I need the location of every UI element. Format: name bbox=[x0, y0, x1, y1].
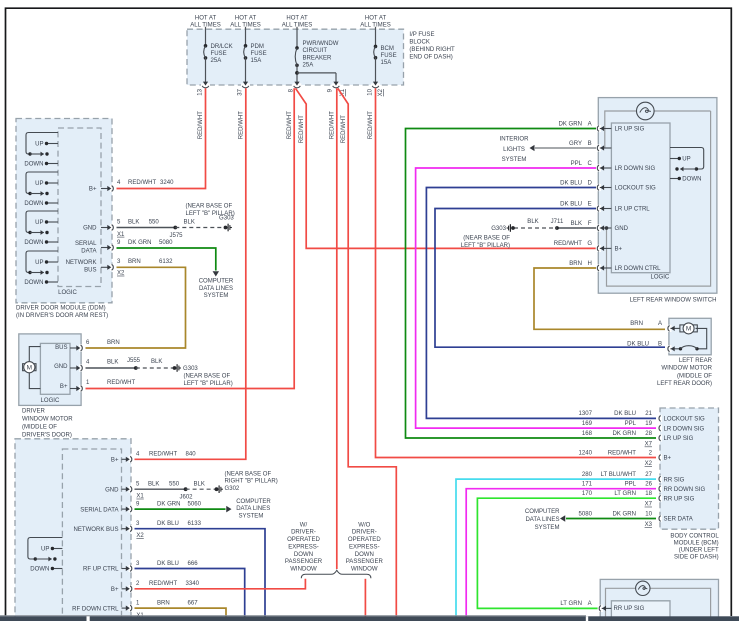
motor pin labels bbox=[54, 345, 68, 390]
DDM pin 5 GND bbox=[83, 224, 116, 232]
svg-text:RED/WHT: RED/WHT bbox=[608, 450, 637, 456]
wire BRN pin H to LR motor A bbox=[534, 268, 665, 329]
svg-text:4: 4 bbox=[86, 360, 90, 366]
svg-text:15A: 15A bbox=[381, 60, 393, 66]
svg-text:X2: X2 bbox=[117, 271, 125, 277]
svg-text:COMPUTER: COMPUTER bbox=[525, 509, 560, 515]
svg-text:DK GRN: DK GRN bbox=[612, 511, 636, 517]
svg-text:1: 1 bbox=[86, 380, 90, 386]
svg-text:DRIVER DOOR MODULE (DDM): DRIVER DOOR MODULE (DDM) bbox=[16, 306, 106, 312]
wire RED/WHT pin9 branch down W/O option bbox=[338, 88, 397, 616]
svg-text:FUSE: FUSE bbox=[251, 51, 267, 57]
svg-text:RED/WHT: RED/WHT bbox=[239, 111, 245, 140]
svg-text:280: 280 bbox=[582, 472, 593, 478]
svg-text:5: 5 bbox=[136, 482, 140, 488]
svg-text:G: G bbox=[587, 241, 592, 247]
svg-text:DK BLU: DK BLU bbox=[627, 342, 649, 348]
wire RED/WHT pin10 to BCM B+ 1240 bbox=[368, 88, 656, 457]
svg-text:19: 19 bbox=[645, 421, 652, 427]
svg-text:WINDOW MOTOR: WINDOW MOTOR bbox=[661, 366, 712, 372]
wire RED/WHT pin13 to DDM B+ bbox=[117, 88, 206, 188]
svg-text:UP: UP bbox=[35, 260, 43, 266]
LR switch logic box bbox=[611, 123, 670, 281]
svg-text:25A: 25A bbox=[303, 63, 315, 69]
svg-text:J575: J575 bbox=[169, 233, 183, 239]
svg-text:BLK: BLK bbox=[128, 220, 139, 226]
svg-text:10: 10 bbox=[645, 511, 652, 517]
wire RED/WHT pin8 to driver window motor B+ bbox=[86, 88, 295, 388]
svg-text:DOWN: DOWN bbox=[30, 567, 49, 573]
svg-text:DOWN: DOWN bbox=[682, 177, 701, 183]
svg-text:SERIAL: SERIAL bbox=[75, 241, 97, 247]
ground G302 bbox=[215, 472, 278, 494]
svg-text:F: F bbox=[588, 221, 592, 227]
wire PPL pin C to BCM 169 bbox=[416, 168, 656, 428]
svg-text:5: 5 bbox=[117, 220, 121, 226]
svg-text:RR UP SIG: RR UP SIG bbox=[614, 606, 645, 612]
svg-text:LOGIC: LOGIC bbox=[58, 290, 77, 296]
svg-text:DATA LINES: DATA LINES bbox=[199, 286, 233, 292]
BCM pin 21 LOCKOUT SIG bbox=[579, 411, 705, 422]
PDM pin 4 B+ bbox=[111, 452, 196, 464]
svg-text:PDM: PDM bbox=[251, 44, 264, 50]
BCM caption bbox=[670, 533, 719, 560]
label HOT AT ALL TIMES 3 bbox=[282, 16, 313, 29]
svg-text:26: 26 bbox=[645, 482, 652, 488]
svg-text:RED/WHT: RED/WHT bbox=[368, 111, 374, 140]
svg-text:DRIVER: DRIVER bbox=[22, 409, 45, 415]
left rear window motor box bbox=[669, 318, 711, 355]
label W/ driver-operated express-down passenger window bbox=[285, 522, 323, 572]
svg-text:RED/WHT: RED/WHT bbox=[341, 115, 347, 144]
svg-text:27: 27 bbox=[645, 472, 652, 478]
svg-text:EXPRESS-: EXPRESS- bbox=[288, 544, 319, 550]
PDM pin 3 RF UP CTRL wire DK BLU 666 bbox=[83, 561, 245, 616]
svg-text:3340: 3340 bbox=[186, 581, 200, 587]
svg-text:M: M bbox=[27, 364, 32, 371]
svg-text:BLK: BLK bbox=[148, 482, 159, 488]
DDM switch group 3 bbox=[24, 211, 58, 246]
svg-text:LEFT "B" PILLAR): LEFT "B" PILLAR) bbox=[184, 381, 233, 387]
svg-text:(NEAR BASE OF: (NEAR BASE OF bbox=[184, 374, 231, 380]
DDM pin 3 NETWORK BUS bbox=[66, 260, 116, 274]
svg-text:X1: X1 bbox=[117, 232, 125, 238]
wire BLK 550 to G303 bbox=[117, 220, 224, 240]
motor symbol M bbox=[23, 347, 41, 389]
svg-text:LR DOWN SIG: LR DOWN SIG bbox=[664, 426, 705, 432]
svg-text:LEFT REAR WINDOW SWITCH: LEFT REAR WINDOW SWITCH bbox=[630, 298, 717, 304]
svg-text:DK GRN: DK GRN bbox=[612, 431, 636, 437]
bottom bar bbox=[0, 615, 739, 621]
svg-text:G302: G302 bbox=[225, 486, 240, 492]
label I/P FUSE BLOCK caption bbox=[409, 32, 455, 61]
svg-text:4: 4 bbox=[117, 180, 121, 186]
junction breaker output bbox=[295, 71, 336, 83]
label computer data lines system (BCM) bbox=[525, 509, 560, 531]
LR switch pin E LR UP CTRL bbox=[560, 201, 650, 212]
LR motor pin B + breaker arc bbox=[627, 342, 699, 353]
ground G303 (LR switch) bbox=[461, 224, 515, 249]
svg-text:550: 550 bbox=[149, 220, 160, 226]
svg-text:X2: X2 bbox=[645, 461, 653, 467]
svg-text:DOWN: DOWN bbox=[24, 162, 43, 168]
LR motor caption bbox=[657, 358, 713, 387]
svg-text:HOT AT: HOT AT bbox=[235, 16, 257, 22]
svg-text:RED/WHT: RED/WHT bbox=[554, 241, 583, 247]
svg-text:DOWN: DOWN bbox=[24, 201, 43, 207]
LR switch caption bbox=[630, 298, 717, 304]
DDM logic box bbox=[58, 128, 101, 296]
ground G303 (DDM) bbox=[186, 204, 235, 232]
svg-text:HOT AT: HOT AT bbox=[195, 16, 217, 22]
svg-text:BRN: BRN bbox=[107, 340, 120, 346]
svg-text:5060: 5060 bbox=[188, 502, 202, 508]
svg-text:25A: 25A bbox=[211, 58, 223, 64]
svg-text:BLK: BLK bbox=[151, 359, 162, 365]
svg-text:LIGHTS: LIGHTS bbox=[503, 147, 525, 153]
right rear window switch box bbox=[600, 579, 718, 621]
svg-text:B: B bbox=[658, 342, 662, 348]
PDM logic box bbox=[62, 449, 121, 621]
svg-text:D: D bbox=[588, 180, 593, 186]
svg-text:INTERIOR: INTERIOR bbox=[500, 136, 530, 142]
svg-text:RR DOWN SIG: RR DOWN SIG bbox=[664, 487, 706, 493]
svg-text:B+: B+ bbox=[60, 384, 68, 390]
PDM pin 2 B+ wire RED/WHT 3340 bbox=[111, 579, 305, 593]
svg-text:GRY: GRY bbox=[569, 141, 582, 147]
passenger door module box bbox=[15, 439, 131, 621]
svg-text:RED/WHT: RED/WHT bbox=[149, 581, 178, 587]
wire RED/WHT W/O leg bbox=[364, 579, 366, 617]
RR switch lamp bbox=[606, 581, 711, 616]
svg-text:RED/WHT: RED/WHT bbox=[128, 180, 157, 186]
label interior lights system bbox=[500, 136, 530, 163]
svg-text:PASSENGER: PASSENGER bbox=[285, 559, 323, 565]
svg-text:SYSTEM: SYSTEM bbox=[239, 513, 264, 519]
svg-text:BLK: BLK bbox=[107, 360, 118, 366]
BCM pin 26 RR DOWN SIG bbox=[582, 482, 706, 493]
svg-text:SERIAL DATA: SERIAL DATA bbox=[80, 507, 119, 513]
svg-text:RR UP SIG: RR UP SIG bbox=[664, 496, 695, 502]
RR switch pin A RR UP SIG bbox=[560, 601, 644, 612]
svg-text:GND: GND bbox=[83, 226, 97, 232]
svg-text:HOT AT: HOT AT bbox=[286, 16, 308, 22]
pin 9 connector X1 bbox=[328, 82, 347, 97]
svg-text:G303: G303 bbox=[491, 226, 506, 232]
svg-text:SYSTEM: SYSTEM bbox=[502, 157, 527, 163]
svg-text:DRIVER-: DRIVER- bbox=[291, 530, 316, 536]
svg-text:171: 171 bbox=[582, 482, 593, 488]
svg-text:9: 9 bbox=[117, 240, 121, 246]
svg-text:LEFT REAR: LEFT REAR bbox=[679, 358, 713, 364]
svg-text:LR UP SIG: LR UP SIG bbox=[664, 436, 694, 442]
svg-text:1307: 1307 bbox=[579, 411, 593, 417]
PDM pin 1 RF DOWN CTRL wire BRN 667 bbox=[72, 601, 226, 619]
svg-text:LR DOWN SIG: LR DOWN SIG bbox=[615, 166, 656, 172]
svg-text:9: 9 bbox=[136, 502, 140, 508]
fuse BCM 15A bbox=[374, 27, 397, 83]
label computer data lines system (DDM) bbox=[199, 279, 234, 299]
svg-text:RF UP CTRL: RF UP CTRL bbox=[83, 567, 119, 573]
DDM switch group 2 bbox=[24, 172, 58, 207]
RR switch logic box bbox=[611, 601, 670, 621]
svg-text:BLK: BLK bbox=[571, 221, 582, 227]
svg-text:LOGIC: LOGIC bbox=[41, 398, 60, 404]
svg-text:END OF DASH): END OF DASH) bbox=[409, 54, 452, 60]
svg-text:LR UP CTRL: LR UP CTRL bbox=[615, 207, 651, 213]
svg-text:A: A bbox=[658, 321, 663, 327]
svg-text:J555: J555 bbox=[127, 358, 141, 364]
svg-text:M: M bbox=[686, 326, 691, 333]
svg-text:GND: GND bbox=[54, 364, 68, 370]
svg-text:MODULE (BCM): MODULE (BCM) bbox=[674, 541, 719, 547]
svg-text:2: 2 bbox=[136, 581, 140, 587]
svg-text:UP: UP bbox=[35, 142, 43, 148]
wire LT BLU/WHT 280 to RR switch bbox=[456, 479, 656, 616]
svg-text:DRIVER-: DRIVER- bbox=[352, 530, 377, 536]
svg-text:PASSENGER: PASSENGER bbox=[346, 559, 384, 565]
LR switch UP/DOWN contacts bbox=[670, 148, 704, 183]
svg-text:BRN: BRN bbox=[569, 261, 582, 267]
BCM pin 2 B+ bbox=[579, 450, 672, 467]
svg-text:B+: B+ bbox=[89, 187, 97, 193]
svg-text:(IN DRIVER'S DOOR ARM REST): (IN DRIVER'S DOOR ARM REST) bbox=[16, 313, 108, 319]
svg-text:LR DOWN CTRL: LR DOWN CTRL bbox=[615, 266, 662, 272]
driver window motor box bbox=[19, 334, 81, 406]
PDM pin 3 NETWORK BUS wire DK BLU 6133 bbox=[73, 521, 265, 616]
label W/O driver-operated express-down passenger window bbox=[346, 522, 384, 572]
svg-text:UP: UP bbox=[35, 181, 43, 187]
label computer data lines system (PDM) bbox=[236, 499, 271, 520]
svg-text:DATA LINES: DATA LINES bbox=[525, 517, 559, 523]
svg-text:10: 10 bbox=[368, 88, 374, 95]
I/P fuse block box bbox=[187, 29, 404, 85]
svg-text:PPL: PPL bbox=[571, 161, 583, 167]
svg-text:H: H bbox=[588, 261, 592, 267]
BCM pin 18 RR UP SIG bbox=[582, 491, 695, 508]
svg-text:FUSE: FUSE bbox=[211, 51, 227, 57]
svg-text:BUS: BUS bbox=[84, 268, 96, 274]
svg-text:DK GRN: DK GRN bbox=[558, 121, 582, 127]
svg-text:(NEAR BASE OF: (NEAR BASE OF bbox=[463, 236, 510, 242]
svg-text:SYSTEM: SYSTEM bbox=[204, 293, 229, 299]
svg-text:B+: B+ bbox=[664, 456, 672, 462]
svg-text:OPERATED: OPERATED bbox=[287, 537, 320, 543]
svg-text:BCM: BCM bbox=[381, 46, 394, 52]
svg-text:G303: G303 bbox=[183, 366, 198, 372]
svg-text:13: 13 bbox=[198, 88, 204, 95]
svg-text:C: C bbox=[588, 161, 593, 167]
svg-text:(NEAR BASE OF: (NEAR BASE OF bbox=[186, 204, 233, 210]
svg-text:DK GRN: DK GRN bbox=[157, 502, 181, 508]
svg-text:DOWN: DOWN bbox=[294, 552, 313, 558]
svg-text:LOGIC: LOGIC bbox=[650, 275, 669, 281]
svg-text:BRN: BRN bbox=[157, 601, 170, 607]
LR switch pin A LR UP SIG bbox=[558, 121, 644, 132]
svg-text:RED/WHT: RED/WHT bbox=[287, 111, 293, 140]
svg-text:RED/WHT: RED/WHT bbox=[330, 111, 336, 140]
svg-text:550: 550 bbox=[169, 482, 180, 488]
label HOT AT ALL TIMES 2 bbox=[230, 16, 261, 29]
svg-text:RED/WHT: RED/WHT bbox=[299, 115, 305, 144]
wire PPL 171 to RR switch bbox=[466, 489, 656, 617]
svg-text:LT GRN: LT GRN bbox=[614, 491, 636, 497]
brace option split bbox=[301, 570, 371, 578]
svg-text:(NEAR BASE OF: (NEAR BASE OF bbox=[225, 472, 272, 478]
LR switch pin G B+ bbox=[554, 241, 623, 252]
wire BRN 6132 to driver window motor BUS bbox=[86, 259, 186, 348]
svg-text:DK GRN: DK GRN bbox=[128, 240, 152, 246]
svg-text:3: 3 bbox=[136, 521, 140, 527]
fuse PDM 15A bbox=[244, 27, 267, 83]
DDM caption bbox=[16, 306, 108, 320]
svg-text:UP: UP bbox=[682, 157, 690, 163]
svg-text:LEFT "B" PILLAR): LEFT "B" PILLAR) bbox=[461, 243, 510, 249]
svg-text:GND: GND bbox=[615, 226, 629, 232]
svg-text:HOT AT: HOT AT bbox=[365, 16, 387, 22]
svg-text:NETWORK: NETWORK bbox=[66, 260, 97, 266]
label HOT AT ALL TIMES 4 bbox=[360, 16, 391, 29]
svg-text:B: B bbox=[588, 141, 592, 147]
svg-text:6: 6 bbox=[86, 340, 90, 346]
svg-text:BRN: BRN bbox=[128, 259, 141, 265]
svg-text:RIGHT "B" PILLAR): RIGHT "B" PILLAR) bbox=[225, 479, 278, 485]
BCM pin 27 RR SIG bbox=[582, 472, 685, 483]
svg-text:X7: X7 bbox=[645, 502, 653, 508]
svg-text:3: 3 bbox=[136, 561, 140, 567]
svg-text:3: 3 bbox=[117, 259, 121, 265]
svg-text:(MIDDLE OF: (MIDDLE OF bbox=[677, 373, 712, 379]
svg-text:DOWN: DOWN bbox=[24, 280, 43, 286]
svg-text:J602: J602 bbox=[179, 495, 193, 501]
motor pin 4 GND wire BLK to G303 bbox=[70, 358, 173, 371]
wire BLK pin F to G303 via J711 bbox=[514, 219, 596, 230]
motor pin 1 B+ bbox=[70, 380, 136, 392]
svg-text:DOWN: DOWN bbox=[24, 240, 43, 246]
svg-text:X2: X2 bbox=[136, 533, 144, 539]
svg-text:DK BLU: DK BLU bbox=[157, 521, 179, 527]
motor pin 6 bbox=[70, 340, 120, 351]
svg-text:5080: 5080 bbox=[159, 240, 173, 246]
wire RED/WHT pin8 branch to left rear window switch B+ bbox=[296, 88, 597, 248]
label HOT AT ALL TIMES 1 bbox=[190, 16, 221, 29]
svg-text:RED/WHT: RED/WHT bbox=[107, 380, 136, 386]
svg-text:840: 840 bbox=[186, 452, 197, 458]
svg-text:E: E bbox=[588, 201, 592, 207]
svg-text:COMPUTER: COMPUTER bbox=[236, 499, 271, 505]
svg-text:168: 168 bbox=[582, 431, 593, 437]
LR switch pin F GND bbox=[571, 221, 629, 232]
svg-text:X7: X7 bbox=[645, 442, 653, 448]
svg-text:X3: X3 bbox=[645, 522, 653, 528]
svg-text:RED/WHT: RED/WHT bbox=[198, 111, 204, 140]
svg-text:(UNDER LEFT: (UNDER LEFT bbox=[679, 548, 719, 554]
svg-text:EXPRESS-: EXPRESS- bbox=[349, 544, 380, 550]
svg-text:667: 667 bbox=[188, 601, 199, 607]
svg-text:B+: B+ bbox=[615, 247, 623, 253]
svg-text:LT BLU/WHT: LT BLU/WHT bbox=[601, 472, 637, 478]
svg-text:WINDOW: WINDOW bbox=[351, 567, 378, 573]
svg-text:DOWN: DOWN bbox=[355, 552, 374, 558]
svg-text:X1: X1 bbox=[136, 494, 144, 500]
pin 10 connector X2 bbox=[368, 82, 385, 97]
LR switch pin D LOCKOUT SIG bbox=[560, 180, 656, 191]
svg-text:(MIDDLE OF: (MIDDLE OF bbox=[22, 425, 57, 431]
svg-text:DK BLU: DK BLU bbox=[157, 561, 179, 567]
svg-text:DK BLU: DK BLU bbox=[614, 411, 636, 417]
svg-text:BUS: BUS bbox=[55, 345, 67, 351]
svg-text:A: A bbox=[588, 121, 593, 127]
svg-text:6133: 6133 bbox=[188, 521, 202, 527]
svg-text:SYSTEM: SYSTEM bbox=[535, 525, 560, 531]
DDM pin 9 SERIAL DATA bbox=[75, 241, 116, 255]
PDM pin 9 SERIAL DATA wire DK GRN 5060 bbox=[80, 502, 231, 514]
svg-text:A: A bbox=[588, 601, 593, 607]
pin 8 connector bbox=[289, 82, 302, 93]
ground G303 (motor) bbox=[173, 364, 233, 387]
svg-text:LEFT REAR DOOR): LEFT REAR DOOR) bbox=[657, 381, 712, 387]
svg-text:6132: 6132 bbox=[159, 259, 173, 265]
svg-text:18: 18 bbox=[645, 491, 652, 497]
svg-text:DATA: DATA bbox=[81, 249, 97, 255]
wire RED/WHT 3240 bbox=[117, 180, 174, 186]
svg-text:1240: 1240 bbox=[579, 450, 593, 456]
BCM pin 28 LR UP SIG bbox=[582, 431, 694, 448]
svg-text:PPL: PPL bbox=[625, 421, 637, 427]
wire RED/WHT pin37 to PDM B+ 840 bbox=[135, 88, 246, 459]
LR switch pin C LR DOWN SIG bbox=[571, 161, 656, 172]
LR switch pin H LR DOWN CTRL bbox=[569, 261, 661, 272]
svg-text:DK BLU: DK BLU bbox=[560, 201, 582, 207]
svg-text:LOCKOUT SIG: LOCKOUT SIG bbox=[615, 186, 657, 192]
svg-text:B+: B+ bbox=[111, 458, 119, 464]
svg-text:666: 666 bbox=[188, 561, 199, 567]
LR switch lamp bbox=[605, 102, 711, 286]
wire DK GRN 5080 ser data bbox=[560, 515, 656, 521]
body control module BCM box bbox=[660, 408, 719, 529]
svg-text:5080: 5080 bbox=[579, 511, 593, 517]
BCM pin 19 LR DOWN SIG bbox=[582, 421, 705, 432]
driver window motor caption bbox=[22, 409, 73, 439]
svg-text:169: 169 bbox=[582, 421, 593, 427]
svg-text:PWR/WNDW: PWR/WNDW bbox=[303, 41, 339, 47]
svg-text:SIDE OF DASH): SIDE OF DASH) bbox=[674, 555, 719, 561]
wire DK BLU pin E to LR motor B bbox=[435, 209, 665, 348]
LR switch pin B lamp bbox=[569, 141, 611, 152]
svg-text:WINDOW: WINDOW bbox=[290, 567, 317, 573]
wire LT GRN 170 to RR switch pin A bbox=[477, 498, 656, 608]
svg-text:PPL: PPL bbox=[625, 482, 637, 488]
svg-text:DRIVER'S DOOR): DRIVER'S DOOR) bbox=[22, 432, 72, 438]
wire GRY pin B to interior lights bbox=[530, 145, 597, 151]
svg-text:9: 9 bbox=[328, 88, 334, 92]
PDM pin 5 GND wire BLK 550 to G302 bbox=[105, 482, 215, 501]
left rear window switch box bbox=[598, 98, 717, 294]
svg-text:BRN: BRN bbox=[630, 321, 643, 327]
DDM pin 4 B+ bbox=[89, 185, 116, 193]
svg-text:DATA LINES: DATA LINES bbox=[236, 506, 270, 512]
LR motor pin A + motor symbol bbox=[630, 321, 706, 349]
svg-text:BLOCK: BLOCK bbox=[409, 39, 430, 45]
wire DK BLU pin D to BCM 1307 bbox=[426, 188, 656, 419]
wire RED/WHT pin9 to brace bbox=[330, 88, 337, 569]
svg-text:DR/LCK: DR/LCK bbox=[211, 44, 233, 50]
svg-text:RR SIG: RR SIG bbox=[664, 477, 685, 483]
svg-text:21: 21 bbox=[645, 411, 652, 417]
circuit breaker PWR/WNDW 25A bbox=[295, 27, 339, 83]
svg-text:15A: 15A bbox=[251, 58, 263, 64]
svg-text:J711: J711 bbox=[551, 219, 564, 225]
